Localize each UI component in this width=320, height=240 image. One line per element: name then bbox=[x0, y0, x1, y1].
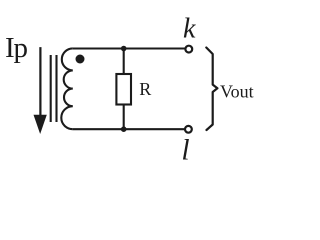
svg-text:R: R bbox=[139, 79, 151, 99]
junction bottom bbox=[121, 126, 127, 132]
svg-text:l: l bbox=[181, 135, 189, 166]
junction top bbox=[121, 46, 127, 52]
wire top bbox=[73, 47, 186, 49]
svg-text:Vout: Vout bbox=[220, 81, 254, 101]
transformer secondary winding bbox=[61, 48, 72, 129]
terminal k bbox=[185, 46, 192, 53]
resistor R body bbox=[116, 74, 131, 105]
primary conductor wire bbox=[39, 47, 41, 117]
wire resistor bottom lead bbox=[123, 105, 125, 130]
transformer core line 1 bbox=[50, 55, 52, 122]
transformer core line 2 bbox=[55, 55, 57, 122]
primary current arrowhead bbox=[34, 115, 47, 134]
wire bottom bbox=[73, 128, 185, 130]
polarity dot bbox=[76, 55, 85, 64]
brace bbox=[206, 48, 217, 131]
wire resistor top lead bbox=[123, 49, 125, 75]
svg-text:Ip: Ip bbox=[5, 32, 27, 64]
terminal l bbox=[185, 126, 192, 133]
svg-text:k: k bbox=[183, 14, 196, 45]
